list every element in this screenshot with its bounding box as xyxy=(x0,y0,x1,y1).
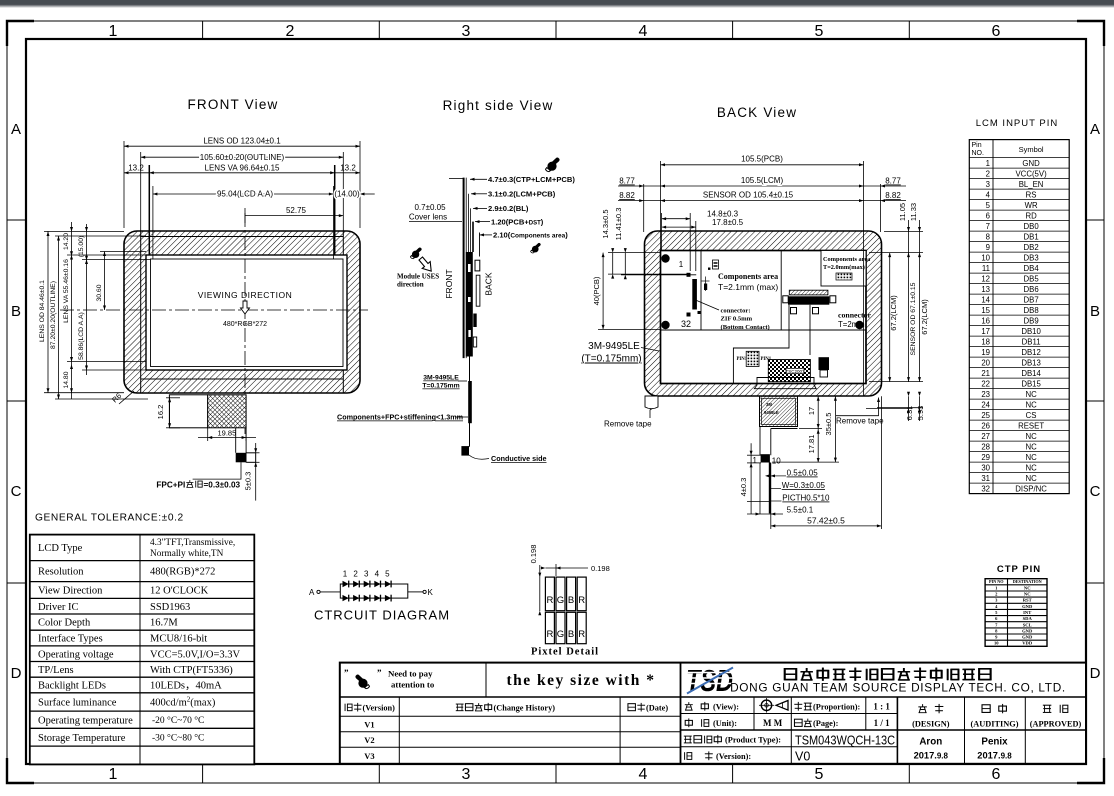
svg-text:16.7M: 16.7M xyxy=(150,618,178,629)
dim 0.198 horizontal xyxy=(545,567,588,569)
main FPC connector xyxy=(789,290,828,295)
active area rect xyxy=(151,259,344,367)
svg-text:5: 5 xyxy=(986,201,991,210)
svg-text:5.5±0.1: 5.5±0.1 xyxy=(787,506,814,515)
svg-text:3: 3 xyxy=(462,766,471,783)
svg-text:Remove tape: Remove tape xyxy=(836,417,884,426)
svg-text:GND: GND xyxy=(1022,635,1033,640)
zone numbers top xyxy=(109,23,1001,40)
svg-text:GND: GND xyxy=(1022,159,1040,168)
svg-text:V3: V3 xyxy=(364,751,374,761)
cathode terminal K xyxy=(408,591,423,593)
FPC stiffener thick segment xyxy=(468,381,472,423)
svg-text:Pixtel Detail: Pixtel Detail xyxy=(531,647,599,658)
FPC neck below tab xyxy=(760,427,798,456)
svg-text:CTP PIN: CTP PIN xyxy=(997,564,1041,575)
bottom pin dims xyxy=(747,443,770,514)
svg-text:31: 31 xyxy=(981,474,990,483)
svg-text:=0.3±0.03: =0.3±0.03 xyxy=(204,481,241,490)
svg-text:21: 21 xyxy=(981,369,990,378)
svg-text:19.85: 19.85 xyxy=(218,429,237,438)
corner ticks xyxy=(7,21,34,46)
zif pitch ticks xyxy=(705,277,707,292)
svg-text:(T=0.175mm): (T=0.175mm) xyxy=(581,354,641,365)
right bottom dims 6.31 / 5.93 xyxy=(866,396,923,421)
svg-text:2: 2 xyxy=(286,23,295,40)
svg-text:22: 22 xyxy=(981,379,990,388)
svg-text:V2: V2 xyxy=(364,735,374,745)
bottom FPC tab hatched xyxy=(760,396,798,426)
svg-text:5: 5 xyxy=(815,23,824,40)
hollow arrow down-right xyxy=(419,257,431,271)
version row xyxy=(685,752,692,760)
routing lines xyxy=(733,305,789,384)
tape outline trapezoid xyxy=(754,378,816,389)
svg-text:NC: NC xyxy=(1024,592,1031,597)
dim LENS VA 96.64±0.15 and 13.2 both sides xyxy=(148,165,150,255)
svg-text:Storage Temperature: Storage Temperature xyxy=(38,733,126,744)
svg-text:25: 25 xyxy=(981,411,990,420)
svg-text:(Date): (Date) xyxy=(646,704,668,713)
svg-text:95.04(LCD A.A): 95.04(LCD A.A) xyxy=(217,190,273,199)
svg-text:B: B xyxy=(11,303,21,320)
svg-text:14.80: 14.80 xyxy=(63,371,70,388)
57.42±0.5 xyxy=(771,396,882,529)
svg-text:17: 17 xyxy=(807,407,816,415)
FPC end black connector xyxy=(236,453,246,463)
Conductive side label + leader xyxy=(469,455,489,459)
svg-text:DB5: DB5 xyxy=(1024,274,1040,283)
svg-text:Remove tape: Remove tape xyxy=(604,420,652,429)
svg-text:CTRCUIT DIAGRAM: CTRCUIT DIAGRAM xyxy=(314,608,450,623)
svg-text:attention to: attention to xyxy=(391,680,435,690)
R6 corner radius callout xyxy=(110,391,123,404)
svg-text:A: A xyxy=(11,121,21,138)
svg-text:DB14: DB14 xyxy=(1021,369,1041,378)
svg-text:Symbol: Symbol xyxy=(1019,145,1044,154)
svg-text:3: 3 xyxy=(986,180,990,189)
module outline side lines in hatch xyxy=(140,232,142,393)
right vertical dims 67.2 / SENSOR OD 67.1 / 67.2 xyxy=(869,253,923,382)
company name (CJK) xyxy=(784,668,990,681)
svg-text:27: 27 xyxy=(981,432,990,441)
svg-text:6: 6 xyxy=(992,766,1001,783)
svg-text:14.3±0.5: 14.3±0.5 xyxy=(601,209,610,238)
svg-text:35±0.5: 35±0.5 xyxy=(824,413,833,436)
svg-text:(Change History): (Change History) xyxy=(494,704,556,713)
svg-text:17.8±0.5: 17.8±0.5 xyxy=(712,218,744,227)
svg-text:480(RGB)*272: 480(RGB)*272 xyxy=(150,567,215,578)
components area box lines xyxy=(700,251,702,331)
FPC tail thick line xyxy=(769,463,771,514)
svg-text:DB4: DB4 xyxy=(1024,264,1040,273)
svg-text:13.2: 13.2 xyxy=(340,163,356,172)
svg-text:Operating temperature: Operating temperature xyxy=(38,715,133,726)
svg-text:(14.00): (14.00) xyxy=(334,190,360,199)
dim 5±0.3 (connector) xyxy=(247,443,260,501)
cover lens vertical lines xyxy=(463,178,465,359)
LED diode D1 xyxy=(343,581,349,588)
svg-text:30.60: 30.60 xyxy=(96,284,103,301)
svg-text:Right side View: Right side View xyxy=(443,98,554,113)
dim 0.198 vertical xyxy=(539,565,541,611)
svg-text:DESTINATION: DESTINATION xyxy=(1013,579,1042,584)
svg-text:PIN NO: PIN NO xyxy=(989,579,1004,584)
dim (15.00) / 58.86(LCD A.A) column xyxy=(82,224,151,375)
svg-text:Conductive side: Conductive side xyxy=(491,454,547,463)
svg-text:VCC=5.0V,I/O=3.3V: VCC=5.0V,I/O=3.3V xyxy=(150,649,241,660)
dim 87.20±0.20(OUTLINE) xyxy=(55,236,148,399)
view row xyxy=(685,702,693,710)
svg-text:(Bottom Contact): (Bottom Contact) xyxy=(721,324,770,331)
svg-text:14.20: 14.20 xyxy=(63,233,70,250)
svg-text:6.31: 6.31 xyxy=(905,406,914,421)
svg-text:FRONT: FRONT xyxy=(444,269,454,298)
svg-text:NC: NC xyxy=(1025,390,1037,399)
svg-text:Components area: Components area xyxy=(718,272,778,281)
svg-text:26: 26 xyxy=(981,421,990,430)
svg-text:4.3"TFT,Transmissive,: 4.3"TFT,Transmissive, xyxy=(150,538,235,548)
grid lines xyxy=(340,663,1086,764)
svg-text:3M: 3M xyxy=(766,402,772,407)
zone letters left xyxy=(11,121,22,682)
svg-text:32: 32 xyxy=(981,484,990,493)
svg-text:R: R xyxy=(546,629,553,640)
dim 17 (tab) xyxy=(799,396,822,462)
2.9 BL xyxy=(473,207,487,209)
svg-text:NC: NC xyxy=(1025,442,1037,451)
svg-text:W=0.3±0.05: W=0.3±0.05 xyxy=(782,481,826,490)
thickness leader labels xyxy=(470,175,575,240)
svg-text:105.5(LCM): 105.5(LCM) xyxy=(741,176,784,185)
svg-text:-20 °C~70 °C: -20 °C~70 °C xyxy=(152,715,204,726)
svg-text:(Page):: (Page): xyxy=(813,719,839,728)
svg-text:11.33: 11.33 xyxy=(909,203,918,221)
svg-text:With CTP(FT5336): With CTP(FT5336) xyxy=(150,665,233,676)
svg-text:”: ” xyxy=(377,668,382,678)
svg-text:C: C xyxy=(1090,483,1101,500)
dim 35±0.5 xyxy=(772,396,839,462)
svg-text:480*RGB*272: 480*RGB*272 xyxy=(223,321,267,328)
svg-text:SDA: SDA xyxy=(1023,616,1033,621)
svg-text:DB0: DB0 xyxy=(1024,222,1040,231)
svg-text:(Unit):: (Unit): xyxy=(713,719,737,728)
svg-text:DB8: DB8 xyxy=(1024,306,1039,315)
svg-text:RS: RS xyxy=(1026,190,1037,199)
svg-text:30: 30 xyxy=(981,463,990,472)
2.10 Components area xyxy=(480,234,493,236)
svg-text:4: 4 xyxy=(375,570,380,579)
svg-text:8.77: 8.77 xyxy=(619,177,635,186)
svg-text:SENSOR OD 67.1±0.15: SENSOR OD 67.1±0.15 xyxy=(910,282,917,355)
svg-text:5: 5 xyxy=(815,766,824,783)
svg-text:23: 23 xyxy=(981,390,990,399)
svg-text:(View):: (View): xyxy=(713,703,739,712)
svg-text:DB2: DB2 xyxy=(1024,243,1039,252)
LED diode D3 xyxy=(364,581,370,588)
svg-text:Surface luminance: Surface luminance xyxy=(38,698,117,709)
svg-text:NC: NC xyxy=(1025,474,1037,483)
svg-text:A: A xyxy=(1090,121,1100,138)
svg-text:B: B xyxy=(568,629,574,640)
svg-text:(DESIGN): (DESIGN) xyxy=(912,720,950,729)
hand icon small mid xyxy=(531,243,541,253)
svg-text:4.7±0.3(CTP+LCM+PCB): 4.7±0.3(CTP+LCM+PCB) xyxy=(488,175,575,184)
svg-text:19: 19 xyxy=(981,348,990,357)
svg-text:Module USES: Module USES xyxy=(397,273,439,281)
svg-text:DB3: DB3 xyxy=(1024,253,1039,262)
svg-text:G: G xyxy=(557,595,564,606)
svg-text:GND: GND xyxy=(1022,628,1033,633)
svg-text:2.9±0.2(BL): 2.9±0.2(BL) xyxy=(488,204,529,213)
svg-text:67.2(LCM): 67.2(LCM) xyxy=(889,295,898,331)
LED block box xyxy=(340,584,408,598)
svg-text:10LEDs，40mA: 10LEDs，40mA xyxy=(150,680,222,691)
svg-text:FRONT View: FRONT View xyxy=(187,97,278,112)
subpixel cells row2 xyxy=(545,612,554,643)
svg-text:10: 10 xyxy=(772,457,781,466)
svg-text:14.8±0.3: 14.8±0.3 xyxy=(707,209,739,218)
svg-text:29: 29 xyxy=(981,453,990,462)
svg-text:28: 28 xyxy=(981,442,990,451)
svg-text:Operating voltage: Operating voltage xyxy=(38,649,114,660)
LED diode D7 xyxy=(353,595,359,602)
svg-text:D: D xyxy=(1090,665,1101,682)
svg-text:NC: NC xyxy=(1025,463,1037,472)
svg-text:INT: INT xyxy=(1023,610,1031,615)
zone numbers bottom xyxy=(109,766,1001,783)
conductive side connector black block xyxy=(461,446,469,456)
2.10 components ref line xyxy=(479,233,481,257)
svg-text:8.82: 8.82 xyxy=(885,191,901,200)
svg-text:LENS VA 96.64±0.15: LENS VA 96.64±0.15 xyxy=(205,163,281,172)
svg-text:DB7: DB7 xyxy=(1024,295,1039,304)
svg-text:2.10(Components area): 2.10(Components area) xyxy=(493,231,568,240)
svg-text:0.198: 0.198 xyxy=(529,545,538,564)
svg-text:R: R xyxy=(546,595,553,606)
3.1 LCM+PCB xyxy=(471,193,487,195)
svg-text:T=2.0mm(max): T=2.0mm(max) xyxy=(823,264,865,271)
leader for FPC+PI label xyxy=(193,462,241,479)
display window (white) xyxy=(146,255,347,370)
svg-text:VCC(5V): VCC(5V) xyxy=(1015,169,1047,178)
svg-text:DB13: DB13 xyxy=(1021,358,1041,367)
back side component outline rects xyxy=(475,260,480,271)
svg-text:Backlight LEDs: Backlight LEDs xyxy=(38,681,106,692)
svg-text:11.41±0.3: 11.41±0.3 xyxy=(614,208,623,241)
svg-text:1 : 1: 1 : 1 xyxy=(873,702,890,712)
center lines dash-dot xyxy=(244,213,246,437)
svg-text:BACK View: BACK View xyxy=(717,105,797,120)
proportion row xyxy=(794,702,802,711)
svg-text:5: 5 xyxy=(385,570,390,579)
svg-text:NO.: NO. xyxy=(972,150,985,157)
svg-text:12: 12 xyxy=(981,274,990,283)
design/audit/approve headers xyxy=(918,704,927,713)
svg-text:52.75: 52.75 xyxy=(286,206,307,215)
svg-text:8: 8 xyxy=(986,232,990,241)
svg-text:16.2: 16.2 xyxy=(156,405,165,420)
dim 30.60 xyxy=(100,252,146,311)
svg-text:1: 1 xyxy=(343,570,348,579)
svg-text:13.2: 13.2 xyxy=(128,163,144,172)
svg-text:V1: V1 xyxy=(364,720,374,730)
screw holes xyxy=(661,254,669,262)
dim 19.85 (stiffener width) xyxy=(198,428,256,441)
svg-text:BACK: BACK xyxy=(484,272,494,295)
PCB bottom edge line xyxy=(661,329,867,331)
svg-text:BL_EN: BL_EN xyxy=(1019,180,1044,189)
svg-text:TP/Lens: TP/Lens xyxy=(38,665,74,676)
svg-text:2017.9.8: 2017.9.8 xyxy=(914,751,949,761)
svg-text:1: 1 xyxy=(679,260,684,269)
svg-text:(Version):: (Version): xyxy=(716,752,751,761)
svg-text:R: R xyxy=(578,629,585,640)
connector leader and text xyxy=(696,300,720,310)
svg-text:A: A xyxy=(309,588,315,597)
svg-text:DB12: DB12 xyxy=(1021,348,1041,357)
svg-text:VDD: VDD xyxy=(1022,641,1033,646)
ZIF connector bar xyxy=(692,279,697,310)
svg-text:11: 11 xyxy=(982,264,990,273)
svg-text:RD: RD xyxy=(1025,211,1037,220)
top dim: LENS OD 123.04±0.1 xyxy=(124,141,360,228)
svg-text:MCU8/16-bit: MCU8/16-bit xyxy=(150,634,207,645)
svg-text:NC: NC xyxy=(1025,400,1037,409)
svg-text:5±0.3: 5±0.3 xyxy=(244,472,253,491)
svg-text:6: 6 xyxy=(992,23,1001,40)
svg-text:9495LE: 9495LE xyxy=(764,410,779,415)
LED diode D2 xyxy=(353,581,359,588)
svg-text:B: B xyxy=(1090,303,1100,320)
svg-text:105.60±0.20(OUTLINE): 105.60±0.20(OUTLINE) xyxy=(200,153,285,162)
svg-text:20: 20 xyxy=(981,358,990,367)
svg-text:3.1±0.2(LCM+PCB): 3.1±0.2(LCM+PCB) xyxy=(488,190,556,199)
svg-text:SSD1963: SSD1963 xyxy=(150,602,190,613)
svg-text:3: 3 xyxy=(364,570,369,579)
dim 8.77 / 105.5(LCM) / 8.77 xyxy=(618,185,906,187)
svg-text:SCL: SCL xyxy=(1023,622,1032,627)
svg-text:M M: M M xyxy=(763,718,783,728)
back outer rounded rect hatched xyxy=(645,231,882,396)
left remove-tape tab xyxy=(645,396,658,409)
svg-text:TSM043WQCH-13C: TSM043WQCH-13C xyxy=(795,733,895,748)
dim 17.8±0.5 xyxy=(662,221,696,271)
svg-text:PICTH0.5*10: PICTH0.5*10 xyxy=(782,494,830,503)
svg-text:(Proportion):: (Proportion): xyxy=(813,703,861,712)
svg-text:3M-9495LE: 3M-9495LE xyxy=(423,375,459,382)
svg-text:15: 15 xyxy=(981,306,990,315)
dim 95.04(LCD A.A) and (14.00) xyxy=(153,186,375,259)
svg-text:R: R xyxy=(578,595,585,606)
top dark browser bar xyxy=(0,0,1114,5)
svg-text:ZIF 0.5mm: ZIF 0.5mm xyxy=(721,316,753,323)
svg-text:24: 24 xyxy=(981,400,990,409)
svg-text:Resolution: Resolution xyxy=(38,567,84,578)
svg-text:4±0.3: 4±0.3 xyxy=(739,478,748,497)
svg-text:7: 7 xyxy=(986,222,990,231)
TSD logo xyxy=(684,663,735,698)
svg-text:T=2mm: T=2mm xyxy=(838,320,865,329)
leader from 3M label to back module xyxy=(641,348,659,352)
svg-text:32: 32 xyxy=(681,319,691,329)
module stack black bar xyxy=(466,252,473,357)
svg-text:4: 4 xyxy=(639,766,648,783)
svg-text:LENS VA 55.46±0.16: LENS VA 55.46±0.16 xyxy=(63,259,70,323)
back inner white PCB area xyxy=(661,251,867,384)
svg-text:57.42±0.5: 57.42±0.5 xyxy=(807,516,845,526)
outer border xyxy=(340,663,1086,764)
subpixel cells row1 xyxy=(545,577,554,611)
small black component xyxy=(819,357,830,370)
svg-text:5.93: 5.93 xyxy=(916,406,925,421)
dim 8.82 / SENSOR OD 105.4±0.15 / 8.82 xyxy=(618,200,906,202)
svg-text:LCD Type: LCD Type xyxy=(38,543,83,554)
dim 40(PCB) xyxy=(598,253,660,330)
svg-text:RESET: RESET xyxy=(1018,421,1044,430)
svg-text:-30 °C~80 °C: -30 °C~80 °C xyxy=(152,732,204,743)
svg-text:10: 10 xyxy=(994,641,999,646)
svg-text:FPC+PI: FPC+PI xyxy=(156,481,185,490)
svg-text:Cover lens: Cover lens xyxy=(409,213,447,222)
small footprint symbol xyxy=(713,260,719,269)
svg-text:connector: connector xyxy=(838,311,871,320)
FPC end connector black xyxy=(761,454,770,462)
Module USES hand xyxy=(410,247,421,258)
svg-text:87.20±0.20(OUTLINE): 87.20±0.20(OUTLINE) xyxy=(50,281,57,349)
svg-text:1: 1 xyxy=(109,23,118,40)
svg-text:C: C xyxy=(11,483,22,500)
4.7 CTP+LCM+PCB xyxy=(470,178,487,180)
svg-text:16: 16 xyxy=(981,316,990,325)
FPC tab below lens: white part xyxy=(169,395,207,428)
svg-text:”: ” xyxy=(344,668,349,678)
svg-text:(Product Type):: (Product Type): xyxy=(725,736,781,745)
hand icon top right xyxy=(546,158,560,172)
svg-text:Driver IC: Driver IC xyxy=(38,602,79,613)
svg-text:direction: direction xyxy=(397,281,424,289)
svg-text:D: D xyxy=(11,665,22,682)
svg-text:2017.9.8: 2017.9.8 xyxy=(977,751,1012,761)
5.5±0.1 xyxy=(747,513,783,515)
svg-text:Penix: Penix xyxy=(981,737,1008,748)
svg-text:9: 9 xyxy=(986,243,990,252)
svg-text:G: G xyxy=(557,629,564,640)
svg-text:0.198: 0.198 xyxy=(591,564,610,573)
right vertical dims 11.05 / 11.33 xyxy=(869,220,923,253)
1.20 PCB+DST xyxy=(475,221,490,223)
svg-text:Pin: Pin xyxy=(972,142,982,149)
LCM/BL thin layer lines above PCB xyxy=(468,194,470,252)
svg-text:DB1: DB1 xyxy=(1024,232,1039,241)
svg-text:DONG GUAN TEAM SOURCE DISPLAY: DONG GUAN TEAM SOURCE DISPLAY TECH. CO, … xyxy=(730,681,1066,695)
dim 14.20 / LENS VA 55.46±0.16 / 14.80 column xyxy=(67,222,146,399)
svg-text:connector:: connector: xyxy=(721,308,751,315)
dim LENS OD 84.46±0.1 xyxy=(44,231,124,393)
svg-text:the key size with *: the key size with * xyxy=(506,672,655,689)
svg-text:Aron: Aron xyxy=(919,737,942,748)
LED diode D6 xyxy=(343,595,349,602)
svg-text:V0: V0 xyxy=(795,750,810,764)
svg-text:10: 10 xyxy=(981,253,990,262)
svg-text:(Version): (Version) xyxy=(363,704,396,713)
svg-text:DB15: DB15 xyxy=(1021,379,1041,388)
svg-text:WR: WR xyxy=(1025,201,1038,210)
svg-text:Interface Types: Interface Types xyxy=(38,634,103,645)
top tick of lens xyxy=(449,177,463,179)
svg-text:67.2(LCM): 67.2(LCM) xyxy=(920,299,929,335)
svg-text:Need to pay: Need to pay xyxy=(388,669,433,679)
